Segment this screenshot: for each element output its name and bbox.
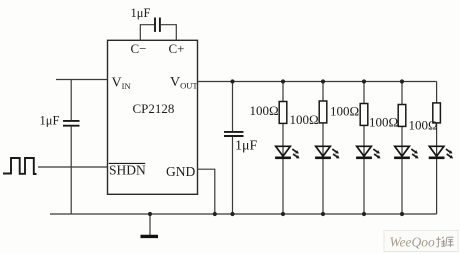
wire LED branch 1 from VOUT rail to ground rail [282, 82, 284, 215]
wire bottom ground rail [50, 213, 437, 215]
resistor R3 100 ohm [360, 104, 368, 126]
node branch 3 bottom junction dot [362, 212, 366, 216]
wire LED branch 2 from VOUT rail to ground rail [322, 82, 324, 215]
node branch 4 bottom junction dot [400, 212, 404, 216]
wire LED branch 3 from VOUT rail to ground rail [363, 82, 365, 215]
LED D4 [394, 146, 410, 158]
svg-text:VIN: VIN [112, 76, 131, 92]
svg-text:100Ω: 100Ω [250, 103, 279, 118]
svg-text:CP2128: CP2128 [133, 101, 175, 116]
wire pulse source to SHDN pin [38, 166, 108, 168]
LED D2 light emission arrows [332, 149, 339, 158]
wire LED branch 5 from VOUT rail to ground rail [436, 82, 438, 215]
capacitor C1 1uF flying capacitor plates [155, 18, 160, 32]
wire C- pin to flying capacitor [140, 25, 154, 41]
node output cap bottom junction dot [230, 212, 234, 216]
ground symbol [141, 214, 159, 236]
LED D5 [429, 146, 445, 158]
svg-text:1μF: 1μF [235, 139, 258, 154]
wire LED branch 4 from VOUT rail to ground rail [401, 82, 403, 215]
node branch 2 top junction dot [321, 79, 325, 83]
node GND pin junction dot [213, 212, 217, 216]
pulse source square wave symbol [3, 158, 37, 174]
svg-text:1μF: 1μF [131, 6, 151, 20]
wire input capacitor to ground rail [70, 127, 72, 214]
node branch 1 top junction dot [281, 79, 285, 83]
node branch 3 top junction dot [362, 79, 366, 83]
svg-text:100Ω: 100Ω [330, 104, 359, 119]
resistor R5 100 ohm [433, 103, 441, 123]
svg-text:GND: GND [166, 164, 195, 179]
wire VIN input rail [56, 79, 108, 81]
watermark WeeQoo box [384, 231, 458, 252]
node branch 2 bottom junction dot [321, 212, 325, 216]
LED D3 [356, 146, 372, 158]
node output cap top junction dot [230, 79, 234, 83]
resistor R1 100 ohm [279, 102, 287, 124]
svg-text:C+: C+ [169, 41, 185, 56]
LED D5 light emission arrows [446, 149, 453, 158]
resistor R4 100 ohm [398, 105, 406, 127]
wire VOUT output rail [198, 81, 437, 83]
node branch 4 top junction dot [400, 79, 404, 83]
svg-text:SHDN: SHDN [109, 163, 146, 178]
node branch 1 bottom junction dot [281, 212, 285, 216]
capacitor C3 1uF output capacitor [224, 82, 244, 215]
LED D1 [275, 146, 291, 158]
svg-text:1μF: 1μF [40, 114, 60, 128]
op-amp U1 CP2128 IC body [108, 40, 198, 194]
LED D1 light emission arrows [292, 149, 299, 158]
svg-text:WeeQoo: WeeQoo [390, 235, 435, 250]
svg-text:C−: C− [131, 41, 147, 56]
svg-text:100Ω: 100Ω [369, 115, 398, 130]
wire flying capacitor to C+ pin [161, 25, 177, 41]
wire VIN to input capacitor [70, 80, 72, 121]
LED D2 [315, 146, 331, 158]
LED D4 light emission arrows [411, 149, 418, 158]
capacitor C2 1uF input capacitor plates [63, 121, 80, 126]
node ground junction dot [148, 212, 152, 216]
svg-text:100Ω: 100Ω [290, 112, 319, 127]
wire GND pin to ground rail [198, 169, 215, 214]
svg-text:VOUT: VOUT [170, 75, 198, 91]
svg-text:100Ω: 100Ω [409, 118, 438, 133]
LED D3 light emission arrows [373, 149, 380, 158]
resistor R2 100 ohm [319, 101, 327, 123]
